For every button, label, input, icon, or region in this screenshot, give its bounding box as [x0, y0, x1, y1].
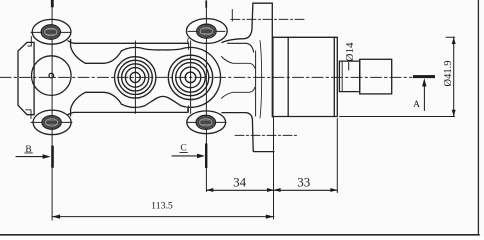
svg-text:34: 34: [233, 174, 247, 189]
top waist between left ear and port boss: [71, 40, 122, 64]
svg-text:113.5: 113.5: [151, 201, 173, 212]
center pilot hole: [49, 73, 54, 78]
right waist lower: [222, 88, 255, 99]
dimension line 34/33: [207, 119, 338, 193]
barrel left edge: [287, 37, 289, 116]
flange neck edge: [260, 41, 262, 119]
top stub centerline tick: [231, 10, 233, 22]
bottom stub centerline: [235, 134, 299, 136]
svg-text:Ø14: Ø14: [344, 42, 356, 61]
main axis centerline: [0, 76, 412, 78]
dimension B pointer: [16, 146, 54, 168]
end fitting rectangle: [360, 59, 392, 94]
barrel end chamfer line: [333, 37, 335, 116]
flange / barrel block: [272, 37, 337, 116]
body bottom silhouette edge: [68, 112, 187, 114]
dimension line 113.5: [52, 215, 274, 219]
bottom-right mounting ear: [187, 106, 226, 134]
outline right of bottom-right ear to flange: [222, 113, 253, 151]
top-right mounting ear: [186, 19, 227, 50]
top stub centerline: [231, 18, 304, 20]
pushrod stub (Ø14): [339, 61, 359, 92]
top port stub: [253, 3, 272, 37]
dimension Ø41.9: [340, 37, 456, 116]
top edge segment right of ear: [228, 43, 254, 52]
dimension A pointer: [413, 75, 435, 110]
reservoir port 1 rings: [130, 72, 140, 82]
port 1 vertical centerline: [134, 41, 136, 114]
bottom waist between left ear and port boss: [71, 92, 122, 116]
dimension C pointer: [172, 144, 207, 169]
bottom-left mounting ear: [26, 110, 72, 135]
svg-text:33: 33: [297, 175, 310, 190]
right waist upper: [222, 57, 255, 69]
right ear centerline (vertical): [205, 1, 207, 192]
flange right face lines: [272, 37, 274, 116]
svg-text:A: A: [413, 100, 420, 110]
left end cap: [18, 42, 34, 114]
drawing border right: [477, 0, 479, 235]
drawing border bottom: [0, 234, 479, 236]
body rear face vertical: [255, 51, 257, 116]
right ear centerline top tick: [205, 1, 207, 8]
left ear centerline top tick: [51, 0, 54, 7]
outline right of top-right ear to flange: [222, 3, 253, 42]
Ø14 leader: [348, 63, 350, 71]
port boss peanut outline: [122, 47, 221, 107]
cylinder bore circle (left end): [32, 56, 72, 96]
port 2 vertical centerline: [190, 41, 192, 114]
top-left mounting ear: [28, 19, 71, 46]
svg-text:Ø41.9: Ø41.9: [443, 61, 454, 87]
left ear centerline (vertical): [51, 1, 53, 220]
reservoir port 2 rings: [185, 72, 196, 83]
bottom port stub: [253, 150, 274, 153]
stub groove line: [341, 61, 343, 92]
body top silhouette edge: [68, 41, 189, 44]
